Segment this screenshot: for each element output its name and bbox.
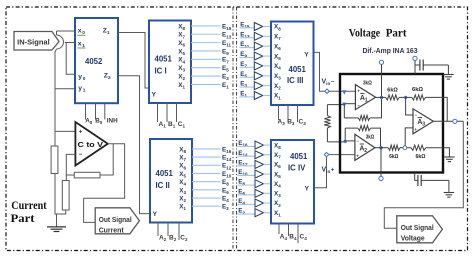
- mux U5 4051 IC IV: [271, 140, 314, 224]
- resistor R1 (shunt): [51, 146, 58, 174]
- Out Signal Current flag: [95, 208, 139, 234]
- svg-text:Y: Y: [304, 52, 309, 59]
- wire: A1 feedback to output: [370, 97, 382, 118]
- svg-text:Y: Y: [153, 211, 158, 218]
- wire E7 to buffer: [240, 66, 255, 68]
- svg-text:+: +: [414, 127, 417, 132]
- wire IC I X7 to E13: [191, 33, 221, 35]
- svg-text:4051: 4051: [155, 55, 173, 64]
- wire IC II X2 to E4: [192, 197, 221, 199]
- wire E14 to buffer: [238, 155, 256, 157]
- Out Signal Voltage flag: [397, 216, 443, 243]
- node: A2 output: [379, 146, 382, 149]
- wire IC I X4 to E7: [191, 58, 221, 60]
- buffer amp for E13: [254, 32, 262, 40]
- buffer amp for E3: [254, 82, 262, 90]
- resistor 6k #3: [388, 145, 400, 150]
- op-amp C-to-V converter: [75, 122, 107, 166]
- node Vin+: [324, 152, 328, 156]
- svg-text:Y: Y: [152, 92, 157, 99]
- wire: R1/R2 to ground rail: [55, 174, 66, 227]
- wire: vertical from IN node down (to y1, op-amp +, R1): [55, 49, 57, 146]
- wire: A1 minus input: [344, 103, 355, 105]
- svg-text:IC I: IC I: [155, 67, 167, 76]
- svg-text:IC II: IC II: [156, 181, 170, 190]
- svg-text:0: 0: [83, 76, 86, 82]
- wire E2 to buffer: [238, 213, 256, 215]
- terminal: output node: [453, 119, 457, 123]
- svg-text:Current: Current: [11, 198, 46, 212]
- svg-text:4051: 4051: [289, 65, 307, 74]
- svg-text:−: −: [414, 112, 417, 117]
- mux U3 4051 IC II: [150, 139, 192, 223]
- svg-text:+: +: [356, 153, 359, 158]
- wire: minus node down to R2: [65, 175, 67, 181]
- wire E4 to buffer: [238, 203, 256, 205]
- wire buffer to IC IV X6: [264, 163, 272, 165]
- resistor R2: [62, 181, 69, 211]
- wire: IN-Signal to x0: [57, 31, 76, 42]
- svg-text:3kΩ: 3kΩ: [363, 80, 372, 86]
- wire: Z1 to IC I Y: [118, 33, 149, 89]
- buffer amp for E16: [255, 141, 264, 149]
- svg-text:INH: INH: [107, 118, 118, 125]
- INA163 box: [340, 74, 443, 173]
- op-amp A1: [355, 85, 375, 110]
- IN-Signal flag: [14, 32, 59, 51]
- ground (second stage): [444, 156, 455, 158]
- svg-text:3: 3: [422, 122, 425, 128]
- junction marker on Vin- wire: [342, 90, 346, 94]
- wire: Z2 to IC II Y: [118, 76, 150, 214]
- buffer amp for E11: [254, 42, 262, 50]
- wire/terminal: V- supply with decoupling cap: [414, 61, 416, 75]
- svg-text:+: +: [357, 89, 360, 94]
- wire IC I X2 to E3: [191, 75, 221, 77]
- svg-text:IC III: IC III: [287, 76, 303, 85]
- node: A2 minus: [344, 140, 347, 143]
- svg-text:6kΩ: 6kΩ: [387, 87, 398, 93]
- svg-text:Part: Part: [11, 211, 35, 225]
- capacitor C1: [415, 64, 420, 66]
- svg-text:y: y: [78, 85, 82, 92]
- buffer amp for E15: [254, 23, 262, 31]
- wire buffer to IC IV X3: [264, 192, 272, 194]
- buffer amp for E9: [254, 52, 262, 60]
- svg-text:Current: Current: [99, 228, 125, 235]
- buffer amp for E10: [255, 170, 264, 178]
- wire E8 to buffer: [238, 184, 256, 186]
- wire E5 to buffer: [240, 76, 255, 78]
- buffer amp for E2: [255, 209, 264, 217]
- wire E10 to buffer: [238, 174, 256, 176]
- mux U2 4051 IC I: [149, 21, 191, 104]
- wire E16 to buffer: [238, 146, 256, 148]
- svg-text:6kΩ: 6kΩ: [416, 154, 427, 160]
- svg-text:y: y: [78, 73, 82, 80]
- op-amp A3: [413, 109, 433, 134]
- wire E6 to buffer: [238, 194, 256, 196]
- IC I select stubs A1 B1 C1: [157, 103, 159, 122]
- buffer amp for E12: [255, 160, 264, 168]
- wire IC II X4 to E8: [192, 181, 221, 183]
- resistor 6k #1: [386, 95, 400, 100]
- resistor 3k feedback A2: [345, 127, 358, 129]
- wire E15 to buffer: [240, 27, 255, 29]
- wire: feedback loop: [100, 144, 113, 175]
- wire: to C-to-V + input: [55, 130, 75, 132]
- svg-text:Voltage: Voltage: [349, 26, 381, 40]
- wire: x1 node down to y0: [66, 43, 75, 75]
- wire E9 to buffer: [240, 56, 255, 58]
- buffer amp for E1: [254, 91, 262, 99]
- wire: IC III Y to Vin-: [314, 52, 356, 91]
- wire IC I X1 to E1: [191, 83, 221, 85]
- svg-text:4052: 4052: [85, 57, 103, 66]
- node: A3 minus junction: [404, 96, 407, 99]
- wire buffer to IC IV X7: [264, 154, 272, 156]
- wire buffer to IC IV X5: [264, 173, 272, 175]
- wire buffer to IC III X5: [263, 55, 271, 57]
- wire IC II X6 to E12: [192, 164, 221, 166]
- IC II select stubs A2 B2 C2: [157, 223, 159, 237]
- capacitor C2 (bottom): [415, 173, 418, 181]
- wire IC I X3 to E5: [191, 67, 221, 69]
- buffer amp for E14: [255, 151, 264, 159]
- svg-text:Out Signal: Out Signal: [99, 217, 132, 224]
- node: A1 output: [380, 96, 383, 99]
- wire: x1 input: [65, 42, 76, 44]
- svg-text:1: 1: [83, 88, 86, 94]
- wire: A2 minus input: [345, 140, 355, 142]
- wire: A2 feedback to output: [371, 128, 381, 148]
- wire E3 to buffer: [240, 86, 255, 88]
- feedback resistor Rf of C-to-V: [74, 172, 100, 178]
- svg-text:4051: 4051: [156, 169, 174, 178]
- wire E1 to buffer: [240, 96, 255, 98]
- svg-text:C to V: C to V: [78, 142, 104, 149]
- wire buffer to IC III X2: [263, 85, 271, 87]
- wire: A3 feedback loop: [426, 97, 448, 121]
- resistor 3k feedback A1: [358, 115, 370, 120]
- svg-text:+: +: [331, 167, 335, 173]
- wire/terminal: V+ supply: [381, 64, 383, 97]
- IC III select stubs A3 B3 C3: [278, 105, 280, 120]
- buffer amp for E4: [255, 199, 264, 207]
- wire buffer to IC IV X2: [264, 202, 272, 204]
- wire IC II X1 to E2: [192, 205, 221, 207]
- resistor 6k #4: [411, 145, 426, 150]
- ground (top right): [443, 74, 454, 76]
- svg-text:−: −: [79, 152, 83, 158]
- ground (current part): [47, 226, 66, 228]
- wire IC II X5 to E10: [192, 172, 221, 174]
- wire buffer to IC IV X8: [264, 144, 272, 146]
- svg-text:IN-Signal: IN-Signal: [17, 37, 50, 46]
- wire: A1 minus node down to feedback: [343, 104, 345, 118]
- buffer amp for E7: [254, 62, 262, 70]
- svg-text:x: x: [78, 40, 82, 47]
- svg-text:1: 1: [365, 97, 368, 103]
- svg-text:−: −: [331, 79, 335, 85]
- svg-text:2: 2: [364, 148, 367, 154]
- svg-text:3kΩ: 3kΩ: [366, 134, 375, 140]
- wire buffer to IC III X1: [263, 94, 271, 96]
- wire buffer to IC III X6: [263, 45, 271, 47]
- wire buffer to IC III X7: [263, 35, 271, 37]
- svg-text:x: x: [78, 28, 82, 35]
- section separator (double dash-dot line): [232, 7, 234, 251]
- IC IV select stubs A4 B4 C4: [278, 224, 280, 235]
- wire buffer to IC III X3: [263, 75, 271, 77]
- wire buffer to IC IV X1: [264, 212, 272, 214]
- terminal below box (A2 out sense): [380, 148, 382, 177]
- wire IC II X8 to E16: [192, 148, 221, 150]
- wire E12 to buffer: [238, 165, 256, 167]
- wire E11 to buffer: [240, 47, 255, 49]
- wire: A2 minus node up to feedback: [344, 128, 346, 141]
- wire buffer to IC III X8: [263, 26, 271, 28]
- node Vin-: [325, 89, 329, 93]
- svg-text:IC IV: IC IV: [288, 164, 306, 173]
- wire: A3 output: [433, 120, 463, 122]
- wire: RG to A1 minus node: [327, 104, 344, 106]
- wire: A3 plus input: [405, 128, 413, 148]
- svg-text:6kΩ: 6kΩ: [412, 87, 424, 93]
- svg-text:Dif.-Amp INA 163: Dif.-Amp INA 163: [363, 46, 418, 55]
- wire IC II X3 to E6: [192, 189, 221, 191]
- wire: A1 out to 6k: [376, 96, 386, 98]
- svg-text:6kΩ: 6kΩ: [389, 154, 399, 160]
- wire IC II X7 to E14: [192, 156, 221, 158]
- 4052 select stubs A0 B0 INH: [85, 103, 87, 119]
- wire: A2 out to 6k: [375, 147, 388, 149]
- wire buffer to IC III X4: [263, 65, 271, 67]
- wire: IC IV Y to Vin+: [314, 155, 355, 188]
- svg-text:Out Signal: Out Signal: [401, 225, 434, 232]
- wire: C-to-V output to out flag: [84, 144, 125, 223]
- svg-text:4051: 4051: [290, 152, 308, 161]
- wire hop arc at IN-Signal tip: [57, 35, 64, 49]
- wire: RG to A2 minus node: [327, 141, 345, 143]
- buffer amp for E8: [255, 180, 264, 188]
- svg-text:Voltage: Voltage: [401, 235, 425, 242]
- buffer amp for E6: [255, 189, 264, 197]
- wire buffer to IC IV X4: [264, 183, 272, 185]
- wire IC I X5 to E9: [191, 50, 221, 52]
- svg-text:−: −: [357, 103, 360, 108]
- ground (bottom cap): [444, 192, 455, 194]
- resistor 6k #2 (A3 feedback): [406, 96, 412, 98]
- svg-text:Part: Part: [386, 26, 407, 40]
- wire: output to Out Signal Voltage flag: [384, 121, 463, 228]
- gain resistor RG: [326, 105, 328, 142]
- wire IC I X8 to E15: [191, 25, 221, 27]
- svg-text:+: +: [79, 129, 83, 135]
- buffer amp for E5: [254, 72, 262, 80]
- wire: A3 minus input: [406, 97, 413, 115]
- op-amp A2: [355, 134, 375, 160]
- wire: to 4052 y1: [55, 88, 75, 90]
- wire: 6k #4 to ground: [426, 148, 450, 157]
- node circle between 6k resistors: [403, 146, 407, 150]
- wire E13 to buffer: [240, 37, 255, 39]
- mux U4 4051 IC III: [271, 22, 314, 106]
- svg-text:Y: Y: [305, 186, 310, 193]
- mux U1 4052: [75, 18, 118, 103]
- wire IC I X6 to E11: [191, 42, 221, 44]
- svg-text:−: −: [356, 138, 359, 143]
